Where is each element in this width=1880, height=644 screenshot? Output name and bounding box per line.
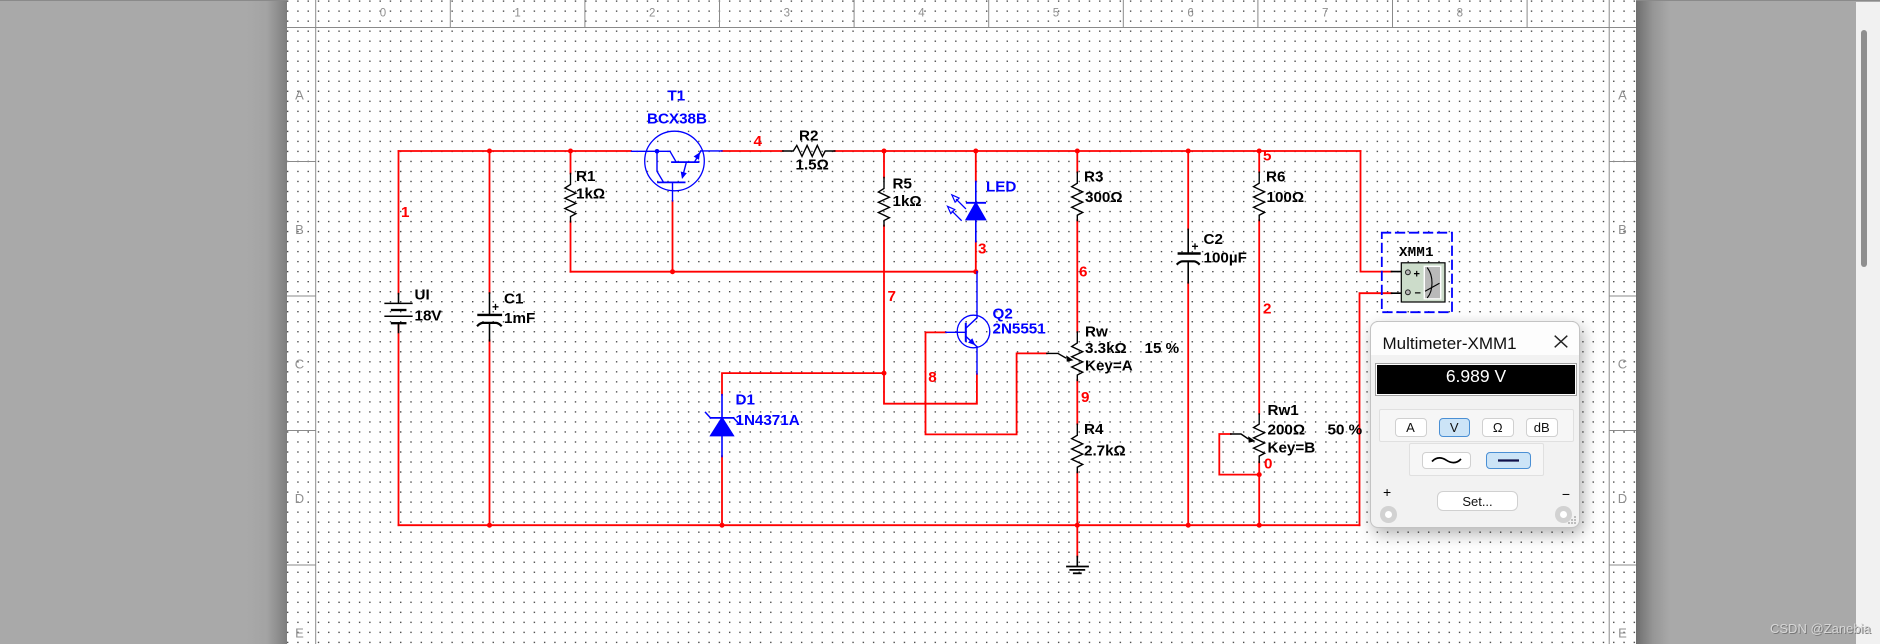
wire: Rw bottom to R4 node 9: [1076, 380, 1078, 525]
svg-text:3.3kΩ: 3.3kΩ: [1085, 340, 1127, 357]
svg-text:6: 6: [1079, 264, 1087, 281]
svg-text:5: 5: [1263, 148, 1272, 165]
voltage display: [1375, 363, 1577, 396]
svg-text:C2: C2: [1204, 231, 1223, 248]
svg-text:+: +: [1192, 240, 1199, 254]
svg-text:7: 7: [888, 288, 896, 305]
right terminal: [1555, 506, 1572, 523]
wire: node 3 horizontal rail: [571, 271, 976, 273]
ground: [1067, 557, 1088, 574]
left terminal: [1380, 506, 1397, 523]
svg-text:4: 4: [918, 8, 925, 20]
svg-text:Key=A: Key=A: [1085, 358, 1133, 375]
svg-text:300Ω: 300Ω: [1085, 189, 1123, 206]
button dB: [1526, 418, 1558, 437]
wire: battery drop left side node 1: [398, 151, 400, 525]
svg-text:UI: UI: [415, 287, 430, 304]
junction dots: [487, 149, 1262, 528]
svg-text:1: 1: [514, 8, 520, 20]
resistor R3: [1072, 172, 1083, 220]
wire: R3 branch node 6: [1076, 151, 1078, 332]
battery UI 18V: [385, 294, 412, 333]
potentiometer Rw: [1047, 332, 1083, 380]
svg-text:D: D: [1618, 491, 1627, 506]
transistor T1 BCX38B (darlington): [632, 131, 723, 201]
wire: C1 branch: [489, 151, 491, 525]
wire: XMM1 minus lead: [1360, 293, 1392, 525]
watermark: [1770, 621, 1880, 636]
svg-text:E: E: [1618, 626, 1627, 641]
svg-text:R5: R5: [893, 176, 913, 193]
transistor Q2 2N5551: [946, 272, 990, 374]
svg-text:1mF: 1mF: [504, 310, 535, 327]
svg-text:5: 5: [1053, 8, 1059, 20]
svg-text:E: E: [295, 626, 304, 641]
svg-text:B: B: [295, 222, 304, 237]
wire: top rail left (battery to T1 base): [399, 150, 632, 152]
svg-text:18V: 18V: [415, 308, 443, 325]
set button: [1437, 491, 1518, 511]
wire: R6 branch node 2: [1258, 151, 1260, 414]
wire: Rw1 bottom and wiper short: [1219, 434, 1259, 525]
top border line: [0, 0, 1880, 1]
wire: bottom ground rail: [399, 524, 1360, 526]
XMM1 instrument icon: [1392, 245, 1446, 302]
svg-text:6: 6: [1187, 8, 1193, 20]
svg-text:1.5Ω: 1.5Ω: [796, 157, 829, 174]
svg-text:Rw: Rw: [1085, 324, 1108, 341]
svg-text:0: 0: [1264, 456, 1272, 473]
wire: T1 emitter drop: [672, 201, 674, 272]
wire: Q2 base feedback path node 8: [926, 332, 1047, 434]
svg-text:50 %: 50 %: [1328, 422, 1363, 439]
button A: [1395, 418, 1427, 437]
svg-text:T1: T1: [668, 88, 686, 105]
button V selected: [1439, 418, 1470, 437]
wire: D1 bottom to ground rail: [721, 456, 723, 525]
svg-text:2N5551: 2N5551: [993, 321, 1047, 338]
minus label: [1562, 486, 1570, 502]
wire: node 7 to D1 top: [722, 373, 884, 395]
svg-text:+: +: [1414, 268, 1420, 280]
svg-text:C1: C1: [504, 291, 524, 308]
LED: [948, 182, 986, 242]
svg-text:R2: R2: [799, 128, 818, 145]
wire: C2 branch: [1187, 151, 1189, 525]
svg-text:A: A: [1618, 88, 1627, 103]
potentiometer Rw1: [1231, 414, 1265, 463]
svg-text:7: 7: [1322, 8, 1328, 20]
svg-text:8: 8: [928, 369, 936, 386]
wire: node7 to Q2 emitter: [884, 373, 977, 404]
svg-text:1kΩ: 1kΩ: [893, 193, 922, 210]
wire: XMM1 plus lead: [1361, 151, 1392, 272]
svg-text:100Ω: 100Ω: [1267, 189, 1305, 206]
svg-text:1N4371A: 1N4371A: [736, 412, 800, 429]
sine button: [1422, 452, 1471, 469]
resistor R2: [783, 145, 835, 156]
svg-text:200Ω: 200Ω: [1268, 422, 1306, 439]
svg-text:0: 0: [380, 8, 386, 20]
svg-text:R1: R1: [576, 168, 596, 185]
capacitor C1: [478, 293, 501, 341]
svg-text:−: −: [1415, 288, 1421, 300]
net number labels: [401, 133, 1272, 473]
svg-text:Rw1: Rw1: [1268, 402, 1300, 419]
svg-text:+: +: [492, 300, 499, 314]
svg-text:A: A: [295, 88, 304, 103]
svg-text:B: B: [1618, 222, 1627, 237]
svg-text:2: 2: [649, 8, 655, 20]
resistor R6: [1254, 172, 1265, 220]
wire: LED branch: [975, 151, 977, 272]
svg-text:Key=B: Key=B: [1268, 439, 1316, 456]
left gray pane: [0, 0, 287, 644]
svg-text:C: C: [1618, 357, 1627, 372]
multimeter dialog XMM1: [1370, 321, 1580, 528]
plus label: [1383, 484, 1391, 500]
dialog close button: [1554, 335, 1568, 348]
resistor R4: [1072, 424, 1083, 472]
wire: rail R2 to XMM plus corner: [884, 150, 1361, 152]
capacitor C2: [1178, 229, 1200, 282]
wire: ground stub below rail: [1076, 525, 1078, 556]
right gray pane: [1636, 0, 1880, 644]
svg-text:1kΩ: 1kΩ: [576, 186, 605, 203]
wire: R1 branch: [570, 151, 572, 272]
scrollbar thumb: [1861, 30, 1867, 267]
svg-text:9: 9: [1081, 389, 1089, 406]
zener diode D1: [706, 395, 739, 457]
svg-text:XMM1: XMM1: [1399, 245, 1434, 261]
svg-text:15 %: 15 %: [1145, 340, 1180, 357]
svg-text:LED: LED: [986, 179, 1016, 196]
svg-text:BCX38B: BCX38B: [647, 111, 707, 128]
svg-text:R4: R4: [1084, 421, 1104, 438]
XMM1 selection dashed box: [1382, 233, 1452, 313]
resistor R1: [565, 174, 576, 222]
svg-text:D: D: [295, 491, 304, 506]
svg-text:3: 3: [784, 8, 790, 20]
scrollbar track: [1856, 2, 1880, 644]
svg-text:1: 1: [401, 204, 410, 221]
svg-text:D1: D1: [736, 392, 756, 409]
waveform panel: [1409, 443, 1544, 476]
dc button selected: [1486, 452, 1532, 469]
svg-text:C: C: [295, 357, 304, 372]
svg-text:2: 2: [1263, 301, 1271, 318]
canvas background: [287, 0, 1636, 644]
svg-text:2.7kΩ: 2.7kΩ: [1084, 442, 1126, 459]
button ohm: [1482, 418, 1514, 437]
svg-text:3: 3: [978, 241, 986, 258]
svg-text:R6: R6: [1266, 169, 1285, 186]
mode panel: [1379, 409, 1574, 442]
dialog title: [1371, 322, 1579, 355]
svg-text:100µF: 100µF: [1204, 250, 1247, 267]
svg-text:8: 8: [1457, 8, 1463, 20]
svg-text:R3: R3: [1084, 169, 1103, 186]
resize grip: [1568, 516, 1577, 525]
resistor R5: [878, 178, 889, 226]
wire: R5 branch node 7: [883, 151, 885, 373]
svg-text:4: 4: [754, 133, 763, 150]
wire: T1 collector to R2 and node 4: [722, 150, 884, 152]
rulers: [287, 0, 1636, 644]
